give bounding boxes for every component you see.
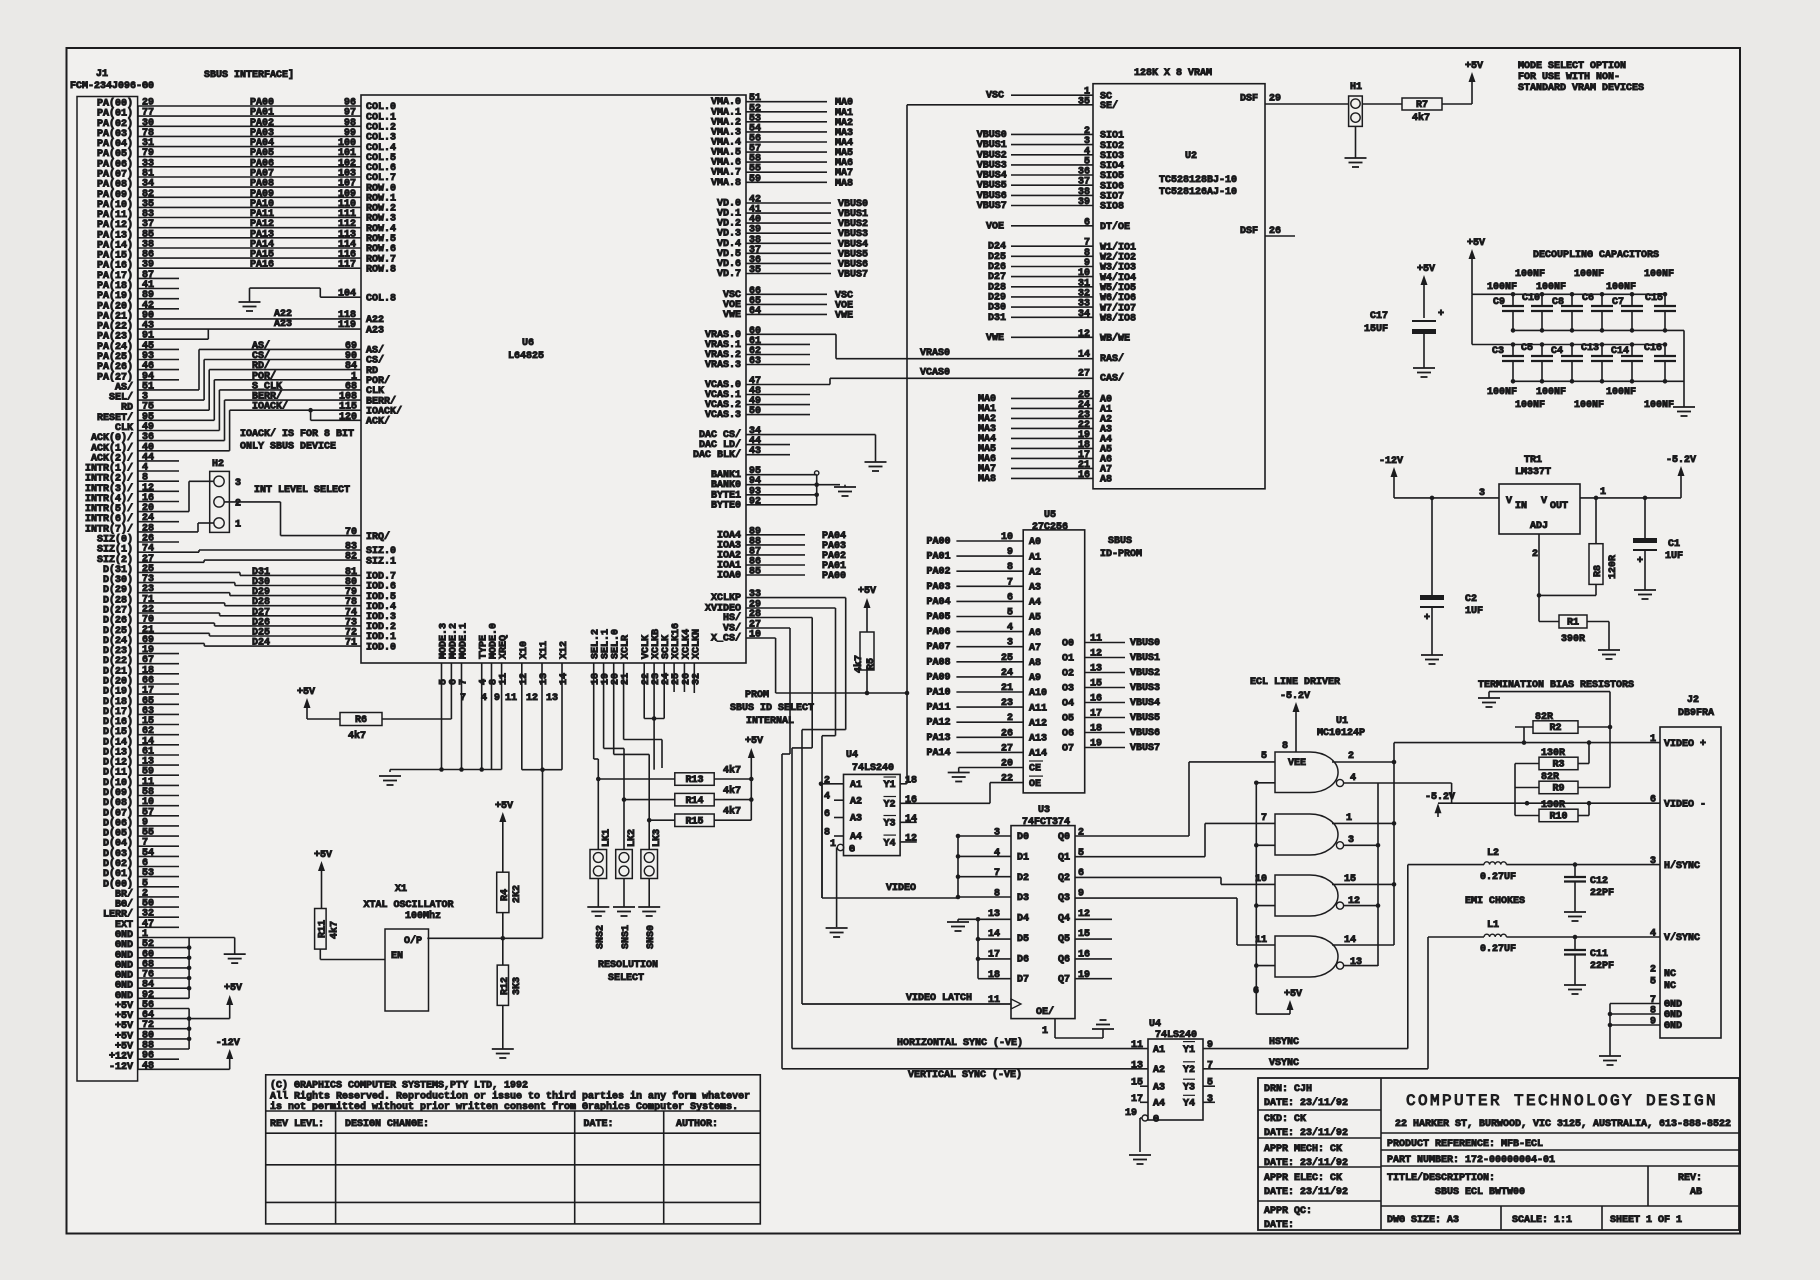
svg-text:R11: R11 (318, 920, 329, 938)
svg-text:A2: A2 (1153, 1065, 1165, 1076)
svg-text:C4: C4 (1551, 346, 1563, 357)
svg-text:All Rights Reserved. Reproduct: All Rights Reserved. Reproduction or iss… (270, 1091, 750, 1103)
svg-text:27C256: 27C256 (1032, 522, 1068, 533)
svg-text:V: V (1506, 496, 1512, 507)
svg-text:ROW.8: ROW.8 (366, 264, 396, 275)
svg-text:C15: C15 (1645, 293, 1663, 304)
svg-text:12: 12 (905, 833, 917, 844)
svg-text:APPR MECH: CK: APPR MECH: CK (1264, 1144, 1342, 1155)
svg-text:X1: X1 (395, 884, 407, 895)
svg-text:VIDEO LATCH: VIDEO LATCH (906, 993, 972, 1004)
svg-text:21: 21 (621, 673, 632, 685)
svg-text:PA00: PA00 (927, 537, 951, 548)
svg-text:7: 7 (1007, 577, 1013, 588)
svg-text:RD/: RD/ (252, 360, 270, 372)
svg-text:17: 17 (1131, 1094, 1143, 1105)
svg-text:HS/: HS/ (723, 612, 741, 624)
svg-text:H1: H1 (1350, 82, 1362, 93)
svg-text:D1: D1 (1017, 853, 1029, 864)
svg-text:VIDEO: VIDEO (886, 883, 916, 894)
svg-text:3: 3 (1207, 1094, 1213, 1105)
svg-text:C7: C7 (1612, 297, 1624, 308)
svg-text:-5.2V: -5.2V (1280, 691, 1310, 702)
svg-text:PA07: PA07 (927, 642, 951, 653)
svg-text:Y2: Y2 (884, 800, 896, 811)
svg-text:+5V: +5V (314, 850, 332, 861)
svg-text:A6: A6 (1029, 628, 1041, 639)
svg-text:R4: R4 (500, 889, 511, 901)
svg-text:CAS/: CAS/ (1100, 372, 1124, 384)
svg-text:SIZ.1: SIZ.1 (366, 556, 396, 567)
svg-text:H/SYNC: H/SYNC (1664, 860, 1700, 872)
svg-text:100NF: 100NF (1574, 269, 1604, 280)
svg-text:A14: A14 (1029, 749, 1047, 760)
svg-text:D2: D2 (1017, 873, 1029, 884)
svg-text:100NF: 100NF (1644, 269, 1674, 280)
svg-text:13: 13 (539, 673, 550, 685)
svg-text:VBUS7: VBUS7 (838, 270, 868, 281)
svg-text:14: 14 (559, 673, 570, 685)
svg-text:R9: R9 (1552, 784, 1564, 795)
svg-text:A4: A4 (850, 832, 862, 843)
svg-text:100NF: 100NF (1644, 400, 1674, 411)
svg-text:A23: A23 (366, 325, 384, 336)
svg-text:VIDEO +: VIDEO + (1664, 739, 1706, 750)
svg-text:V/SYNC: V/SYNC (1664, 932, 1700, 944)
svg-text:4k7: 4k7 (329, 921, 341, 939)
svg-text:A23: A23 (274, 319, 292, 330)
svg-text:43: 43 (749, 446, 761, 457)
svg-text:W7/IO7: W7/IO7 (1100, 302, 1136, 314)
svg-text:C1: C1 (1668, 539, 1680, 550)
svg-text:ONLY SBUS DEVICE: ONLY SBUS DEVICE (240, 442, 336, 453)
svg-text:128K X 8 VRAM: 128K X 8 VRAM (1134, 68, 1212, 79)
svg-text:VBUS1: VBUS1 (1130, 653, 1160, 664)
svg-text:GND: GND (1664, 1000, 1682, 1011)
svg-text:D(01): D(01) (103, 868, 133, 880)
svg-text:D(19): D(19) (103, 686, 133, 698)
svg-text:PA01: PA01 (927, 552, 951, 563)
svg-text:ACK/: ACK/ (366, 416, 390, 428)
svg-text:7: 7 (1261, 813, 1267, 824)
svg-text:O4: O4 (1062, 699, 1074, 710)
svg-text:117: 117 (338, 260, 356, 271)
svg-text:8: 8 (994, 889, 1000, 900)
svg-text:2: 2 (1348, 751, 1354, 762)
svg-text:L1: L1 (1487, 920, 1499, 931)
svg-text:PA(16): PA(16) (97, 260, 133, 272)
svg-text:XCLKP: XCLKP (711, 593, 741, 604)
svg-text:A13: A13 (1029, 734, 1047, 745)
svg-text:59: 59 (749, 174, 761, 185)
svg-text:D(06): D(06) (103, 817, 133, 829)
svg-text:PA(26): PA(26) (97, 361, 133, 373)
svg-text:100NF: 100NF (1515, 400, 1545, 411)
svg-text:DESIGN CHANGE:: DESIGN CHANGE: (345, 1119, 429, 1130)
svg-text:PA10: PA10 (927, 688, 951, 699)
svg-text:2: 2 (1078, 828, 1084, 839)
svg-text:O6: O6 (1062, 729, 1074, 740)
svg-text:IOACK/ IS FOR 8 BIT: IOACK/ IS FOR 8 BIT (240, 428, 354, 440)
svg-text:Q0: Q0 (1058, 832, 1070, 843)
svg-text:VRAS0: VRAS0 (920, 348, 950, 359)
svg-text:AS/: AS/ (115, 381, 133, 393)
svg-text:PA(11): PA(11) (97, 209, 133, 221)
svg-text:12: 12 (1078, 329, 1090, 340)
svg-text:A5: A5 (1029, 613, 1041, 624)
svg-text:+: + (1637, 556, 1643, 567)
svg-text:PA(18): PA(18) (97, 280, 133, 292)
svg-text:13: 13 (546, 693, 558, 704)
svg-text:C12: C12 (1590, 876, 1608, 887)
svg-text:-5.2V: -5.2V (1425, 792, 1455, 803)
svg-text:INTERNAL: INTERNAL (746, 716, 794, 727)
svg-text:GND: GND (1664, 1021, 1682, 1032)
svg-text:71: 71 (345, 638, 357, 649)
svg-text:+5V: +5V (1284, 989, 1302, 1000)
svg-text:SNS2: SNS2 (595, 925, 606, 949)
svg-text:IOA0: IOA0 (717, 571, 741, 582)
svg-text:INT LEVEL SELECT: INT LEVEL SELECT (254, 485, 350, 496)
svg-text:63: 63 (749, 356, 761, 367)
svg-text:PA13: PA13 (927, 733, 951, 744)
svg-text:XCLKN: XCLKN (691, 629, 702, 659)
svg-text:16: 16 (1078, 470, 1090, 481)
svg-text:Q7: Q7 (1058, 975, 1070, 986)
svg-text:CKD: CK: CKD: CK (1264, 1114, 1306, 1125)
svg-text:OE/: OE/ (1036, 1006, 1054, 1018)
svg-text:R12: R12 (500, 977, 511, 995)
svg-text:100NF: 100NF (1487, 387, 1517, 398)
svg-text:25: 25 (1001, 653, 1013, 664)
svg-text:SNS1: SNS1 (621, 925, 632, 949)
svg-text:A10: A10 (1029, 688, 1047, 699)
svg-text:A7: A7 (1029, 643, 1041, 654)
svg-text:DATE:: DATE: (584, 1119, 614, 1130)
svg-text:VBUS4: VBUS4 (1130, 698, 1160, 709)
svg-text:13: 13 (1131, 1060, 1143, 1071)
svg-text:SNS0: SNS0 (646, 925, 657, 949)
svg-text:RESOLUTION: RESOLUTION (598, 960, 658, 971)
svg-text:3: 3 (994, 828, 1000, 839)
svg-text:100NF: 100NF (1515, 269, 1545, 280)
svg-text:SCALE: 1:1: SCALE: 1:1 (1512, 1215, 1572, 1226)
svg-text:R14: R14 (685, 796, 703, 807)
svg-text:PA(13): PA(13) (97, 229, 133, 241)
svg-text:W6/IO6: W6/IO6 (1100, 292, 1136, 304)
svg-text:R10: R10 (1549, 812, 1567, 823)
svg-text:U6: U6 (522, 338, 534, 349)
svg-text:C6: C6 (1582, 293, 1594, 304)
svg-text:SIO8: SIO8 (1100, 202, 1124, 213)
svg-text:C16: C16 (1644, 343, 1662, 354)
svg-text:-12V: -12V (216, 1038, 240, 1049)
svg-text:VSYNC: VSYNC (1269, 1058, 1299, 1069)
svg-text:2: 2 (235, 498, 241, 509)
svg-text:6: 6 (824, 809, 830, 820)
svg-text:2: 2 (1532, 549, 1538, 560)
svg-text:3: 3 (1348, 835, 1354, 846)
svg-text:19: 19 (1125, 1108, 1137, 1119)
svg-text:4k7: 4k7 (723, 785, 741, 797)
svg-text:17: 17 (1090, 709, 1102, 720)
svg-text:VWE: VWE (723, 310, 741, 321)
svg-text:PA03: PA03 (927, 582, 951, 593)
svg-text:IN: IN (1515, 501, 1527, 512)
svg-text:TC528126AJ-10: TC528126AJ-10 (1159, 187, 1237, 198)
svg-text:PA(06): PA(06) (97, 158, 133, 170)
svg-text:PROM: PROM (745, 690, 769, 701)
svg-text:G: G (1153, 1115, 1159, 1126)
svg-text:VSC: VSC (986, 91, 1004, 102)
svg-text:9: 9 (1007, 547, 1013, 558)
svg-text:D4: D4 (1017, 914, 1029, 925)
svg-text:4: 4 (1350, 773, 1356, 784)
svg-text:A8: A8 (1029, 658, 1041, 669)
svg-text:Y2: Y2 (1183, 1065, 1195, 1076)
svg-text:39: 39 (1078, 197, 1090, 208)
svg-text:L64825: L64825 (508, 351, 544, 362)
svg-text:EMI CHOKES: EMI CHOKES (1465, 896, 1525, 907)
svg-text:MA8: MA8 (835, 178, 853, 189)
svg-text:G: G (849, 845, 855, 856)
svg-text:O7: O7 (1062, 744, 1074, 755)
svg-text:0.27UF: 0.27UF (1480, 944, 1516, 955)
svg-text:Q2: Q2 (1058, 873, 1070, 884)
svg-text:+5V: +5V (1467, 238, 1485, 249)
svg-text:D(29): D(29) (103, 584, 133, 596)
svg-text:48: 48 (142, 1061, 154, 1072)
svg-text:O2: O2 (1062, 669, 1074, 680)
svg-text:PA16: PA16 (250, 260, 274, 271)
svg-text:15: 15 (1090, 679, 1102, 690)
svg-text:15UF: 15UF (1364, 324, 1388, 335)
svg-text:-12V: -12V (109, 1062, 133, 1073)
svg-text:35: 35 (749, 265, 761, 276)
svg-text:DATE: 23/11/92: DATE: 23/11/92 (1264, 1097, 1348, 1109)
svg-text:74FCT374: 74FCT374 (1022, 817, 1070, 828)
svg-text:7: 7 (994, 868, 1000, 879)
svg-text:82: 82 (345, 552, 357, 563)
svg-text:4k7: 4k7 (853, 655, 865, 673)
svg-text:MODE.1: MODE.1 (459, 623, 470, 659)
svg-text:6: 6 (1007, 592, 1013, 603)
svg-text:DRN: CJH: DRN: CJH (1264, 1084, 1312, 1095)
svg-text:D6: D6 (1017, 954, 1029, 965)
svg-text:D5: D5 (1017, 934, 1029, 945)
svg-text:V: V (1541, 496, 1547, 507)
svg-text:Y3: Y3 (884, 819, 896, 830)
svg-text:C8: C8 (1552, 297, 1564, 308)
svg-text:7: 7 (459, 679, 470, 685)
svg-text:8: 8 (1650, 1006, 1656, 1017)
svg-text:7: 7 (1650, 995, 1656, 1006)
svg-text:33: 33 (749, 589, 761, 600)
svg-text:Q5: Q5 (1058, 934, 1070, 945)
svg-text:PRODUCT REFERENCE: MFB-ECL: PRODUCT REFERENCE: MFB-ECL (1387, 1139, 1543, 1150)
svg-text:A1: A1 (1153, 1045, 1165, 1056)
svg-text:SBUS INTERFACE]: SBUS INTERFACE] (204, 69, 294, 81)
svg-text:6: 6 (1084, 217, 1090, 228)
svg-text:4k7: 4k7 (723, 765, 741, 777)
svg-text:SHEET 1 OF 1: SHEET 1 OF 1 (1610, 1215, 1682, 1226)
svg-text:14: 14 (1344, 935, 1356, 946)
svg-text:A8: A8 (1100, 475, 1112, 486)
svg-text:OE: OE (1029, 779, 1041, 790)
svg-text:RAS/: RAS/ (1100, 353, 1124, 365)
svg-text:A4: A4 (1029, 598, 1041, 609)
svg-text:PA02: PA02 (927, 567, 951, 578)
svg-text:O5: O5 (1062, 714, 1074, 725)
svg-text:D7: D7 (1017, 975, 1029, 986)
svg-text:104: 104 (338, 289, 356, 300)
svg-text:D(31): D(31) (103, 564, 133, 576)
svg-text:11: 11 (499, 673, 510, 685)
svg-text:TC528128BJ-10: TC528128BJ-10 (1159, 175, 1237, 186)
svg-text:+5V: +5V (1417, 264, 1435, 275)
svg-text:IOD.0: IOD.0 (366, 642, 396, 653)
svg-text:PA12: PA12 (927, 718, 951, 729)
svg-text:3: 3 (1007, 638, 1013, 649)
svg-text:C2: C2 (1465, 594, 1477, 605)
svg-text:4k7: 4k7 (723, 806, 741, 818)
svg-text:6: 6 (1253, 986, 1259, 997)
svg-text:Q6: Q6 (1058, 954, 1070, 965)
svg-text:ID-PROM: ID-PROM (1100, 549, 1142, 560)
svg-text:DATE:: DATE: (1264, 1220, 1294, 1231)
svg-text:+: + (1438, 309, 1444, 320)
svg-text:100NF: 100NF (1574, 400, 1604, 411)
svg-text:100Mhz: 100Mhz (405, 910, 441, 922)
svg-text:22PF: 22PF (1590, 888, 1614, 899)
svg-text:4: 4 (994, 848, 1000, 859)
svg-text:VWE: VWE (986, 333, 1004, 344)
svg-text:C3: C3 (1492, 346, 1504, 357)
svg-text:3K3: 3K3 (512, 977, 523, 995)
svg-text:16: 16 (1090, 694, 1102, 705)
svg-text:D(21): D(21) (103, 665, 133, 677)
svg-text:ADJ: ADJ (1530, 521, 1548, 532)
svg-text:12: 12 (1078, 909, 1090, 920)
svg-text:SBUS: SBUS (1108, 536, 1132, 547)
svg-text:VWE: VWE (835, 310, 853, 321)
svg-text:22PF: 22PF (1590, 961, 1614, 972)
svg-text:74LS240: 74LS240 (852, 763, 894, 774)
svg-text:A0: A0 (1029, 537, 1041, 548)
svg-text:1UF: 1UF (1665, 551, 1683, 562)
svg-text:18: 18 (905, 775, 917, 786)
svg-text:U4: U4 (1149, 1019, 1161, 1030)
svg-text:INTR(3)/: INTR(3)/ (85, 483, 133, 495)
svg-text:24: 24 (1001, 668, 1013, 679)
svg-text:PA11: PA11 (927, 703, 951, 714)
svg-text:DSF: DSF (1240, 226, 1258, 237)
svg-text:DB9FRA: DB9FRA (1678, 708, 1714, 719)
svg-text:13: 13 (988, 909, 1000, 920)
svg-text:VD.7: VD.7 (717, 269, 741, 280)
svg-text:VERTICAL SYNC (-VE): VERTICAL SYNC (-VE) (908, 1069, 1022, 1081)
svg-text:CE: CE (1029, 764, 1041, 775)
svg-text:C17: C17 (1370, 311, 1388, 322)
svg-text:NC: NC (1664, 981, 1676, 992)
svg-text:PA05: PA05 (927, 612, 951, 623)
svg-text:A11: A11 (1029, 703, 1047, 714)
svg-text:100NF: 100NF (1536, 387, 1566, 398)
svg-text:COL.8: COL.8 (366, 294, 396, 305)
svg-text:REV:: REV: (1678, 1173, 1702, 1184)
svg-text:100NF: 100NF (1487, 282, 1517, 293)
svg-text:50: 50 (749, 406, 761, 417)
svg-text:1: 1 (235, 520, 241, 531)
svg-text:120: 120 (339, 412, 357, 423)
svg-text:3: 3 (235, 478, 241, 489)
svg-text:R8: R8 (1593, 565, 1604, 577)
svg-text:92: 92 (749, 496, 761, 507)
svg-text:SBUS ECL BWTW00: SBUS ECL BWTW00 (1435, 1187, 1525, 1198)
svg-text:VMA.8: VMA.8 (711, 178, 741, 189)
svg-text:100NF: 100NF (1536, 282, 1566, 293)
svg-text:13: 13 (1350, 957, 1362, 968)
svg-text:23: 23 (1001, 698, 1013, 709)
svg-text:8: 8 (824, 828, 830, 839)
svg-text:VCAS.3: VCAS.3 (705, 410, 741, 421)
svg-text:7: 7 (1207, 1060, 1213, 1071)
svg-text:PA08: PA08 (927, 657, 951, 668)
svg-text:COMPUTER TECHNOLOGY DESIGN: COMPUTER TECHNOLOGY DESIGN (1406, 1092, 1718, 1110)
svg-text:+5V: +5V (1465, 61, 1483, 72)
svg-text:PA(23): PA(23) (97, 331, 133, 343)
svg-text:C14: C14 (1611, 346, 1629, 357)
svg-text:SIZ(0): SIZ(0) (97, 534, 133, 546)
svg-text:XTAL OSCILLATOR: XTAL OSCILLATOR (364, 900, 454, 911)
svg-text:PA(03): PA(03) (97, 128, 133, 140)
svg-text:BR/: BR/ (115, 888, 133, 900)
svg-text:PA00: PA00 (822, 571, 846, 582)
svg-text:TR1: TR1 (1524, 455, 1542, 466)
svg-text:A1: A1 (850, 780, 862, 791)
svg-text:A3: A3 (1153, 1082, 1165, 1093)
svg-text:PART NUMBER: 172-00000004-0: PART NUMBER: 172-00000004-01 (1387, 1155, 1555, 1166)
svg-text:U4: U4 (846, 750, 858, 761)
svg-text:DSF: DSF (1240, 94, 1258, 105)
svg-text:TERMINATION BIAS RESISTORS: TERMINATION BIAS RESISTORS (1478, 680, 1634, 691)
svg-text:9: 9 (494, 693, 500, 704)
svg-text:2: 2 (824, 775, 830, 786)
svg-text:PA09: PA09 (927, 672, 951, 683)
svg-text:5: 5 (1650, 977, 1656, 988)
svg-text:11: 11 (1090, 634, 1102, 645)
svg-text:O1: O1 (1062, 654, 1074, 665)
svg-text:11: 11 (505, 693, 517, 704)
svg-text:2: 2 (1007, 713, 1013, 724)
svg-text:Y4: Y4 (1183, 1099, 1195, 1110)
svg-text:22 HARKER ST, BURWOOD, VIC 312: 22 HARKER ST, BURWOOD, VIC 3125, AUSTRAL… (1395, 1119, 1731, 1130)
svg-text:INTR(6)/: INTR(6)/ (85, 513, 133, 525)
svg-text:R3: R3 (1552, 760, 1564, 771)
svg-text:+: + (1424, 613, 1430, 624)
svg-text:15: 15 (1344, 874, 1356, 885)
svg-text:D3: D3 (1017, 893, 1029, 904)
svg-text:3: 3 (1650, 856, 1656, 867)
svg-text:LK1: LK1 (601, 829, 612, 847)
svg-text:34: 34 (1078, 309, 1090, 320)
svg-text:NC: NC (1664, 969, 1676, 980)
svg-text:A1: A1 (1029, 552, 1041, 563)
svg-text:+5V: +5V (297, 687, 315, 698)
svg-text:X12: X12 (559, 641, 570, 659)
svg-text:390R: 390R (1561, 634, 1585, 645)
svg-text:IOACK/: IOACK/ (252, 401, 288, 413)
